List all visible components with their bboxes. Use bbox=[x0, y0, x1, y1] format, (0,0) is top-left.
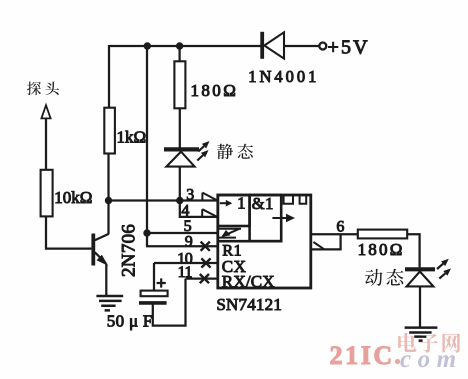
label +5V bbox=[328, 37, 370, 59]
junction LED1 / pin3 / pin4 bbox=[176, 197, 183, 204]
watermark 21IC bbox=[330, 341, 395, 370]
watermark com bbox=[400, 346, 463, 373]
svg-text:9: 9 bbox=[185, 233, 193, 250]
wire 1kΩ to collector node bbox=[107, 154, 109, 235]
wire pin 6 upper bbox=[311, 233, 358, 235]
pin number 11 bbox=[178, 264, 193, 281]
label 50μF bbox=[107, 312, 153, 331]
output polarity stroke bbox=[313, 242, 324, 250]
wire pin 4 jog bbox=[180, 201, 218, 217]
pin number 9 bbox=[185, 233, 193, 250]
wire pin 3 bbox=[109, 199, 218, 201]
wire pin 9 bbox=[146, 245, 218, 247]
svg-text:3: 3 bbox=[186, 187, 194, 204]
wire LED1 to pin3 wire bbox=[179, 167, 181, 201]
wire pin 11 bbox=[186, 277, 218, 279]
IC section divider bbox=[218, 240, 281, 243]
junction rail / 180Ω branch bbox=[176, 42, 183, 49]
pin number 4 bbox=[181, 203, 189, 220]
IC inner output box bbox=[250, 195, 282, 241]
IC gate label 1 bbox=[237, 193, 245, 212]
LED2 动态 triangle bbox=[407, 272, 434, 287]
svg-text:180Ω: 180Ω bbox=[358, 240, 405, 259]
X mark pin 10 bbox=[201, 258, 210, 267]
wedge mark pin 3 bbox=[202, 193, 217, 201]
wedge mark pin 4 bbox=[202, 209, 217, 217]
junction rail / pin5 branch bbox=[144, 42, 151, 49]
label SN74121 bbox=[216, 295, 282, 314]
IC inner trigger box bbox=[218, 195, 250, 226]
wire pin10 to capacitor + bbox=[153, 263, 155, 291]
label 180Ω dynamic bbox=[358, 240, 405, 259]
svg-text:SN74121: SN74121 bbox=[216, 295, 282, 314]
pin number 5 bbox=[184, 218, 192, 235]
LED1 light arrows bbox=[197, 141, 209, 161]
IC gate input arrow bbox=[220, 200, 233, 207]
svg-text:&1: &1 bbox=[252, 194, 274, 213]
wire pin 5 bbox=[147, 232, 218, 234]
wire probe to 10kΩ bbox=[45, 118, 47, 170]
wire rail to 1kΩ bbox=[108, 45, 110, 108]
label 探头 bbox=[27, 82, 59, 96]
IC label &amp;1 bbox=[252, 194, 274, 213]
svg-text:5: 5 bbox=[184, 218, 192, 235]
pin number 3 bbox=[186, 187, 194, 204]
svg-text:+5V: +5V bbox=[328, 37, 370, 59]
transistor collector lead bbox=[95, 234, 109, 240]
capacitor C1 positive plate bbox=[141, 291, 168, 297]
label 1N4001 bbox=[248, 67, 319, 86]
pin number 6 bbox=[336, 218, 344, 235]
label 10kΩ bbox=[54, 188, 92, 207]
label 动态 bbox=[365, 269, 403, 286]
resistor R2 1kΩ body bbox=[104, 108, 115, 154]
junction collector / pin3 wire bbox=[105, 197, 112, 204]
wire 180Ω to LED2 bbox=[407, 234, 419, 267]
X mark pin 11 bbox=[200, 274, 209, 283]
ground emitter bbox=[96, 296, 123, 310]
LED2 light arrows bbox=[437, 259, 451, 279]
resistor R3 180Ω body bbox=[358, 230, 407, 239]
label 180Ω static bbox=[191, 81, 239, 100]
resistor R4 10kΩ body bbox=[41, 170, 53, 217]
IC label CX bbox=[222, 257, 247, 276]
svg-text:2N706: 2N706 bbox=[119, 224, 140, 277]
resistor R1 180Ω body bbox=[174, 61, 185, 108]
wire emitter to ground bbox=[105, 264, 107, 296]
wire +5V rail bbox=[109, 45, 319, 47]
capacitor C1 negative plate bbox=[139, 301, 167, 305]
IC edge trigger symbol bbox=[219, 229, 241, 238]
ground dynamic LED bbox=[405, 328, 438, 341]
svg-text:RX/CX: RX/CX bbox=[222, 272, 275, 291]
label 2N706 bbox=[119, 224, 140, 277]
LED1 静态 triangle bbox=[166, 152, 194, 167]
svg-text:1kΩ: 1kΩ bbox=[117, 128, 147, 147]
wire capacitor - to pin 11 bbox=[153, 279, 186, 326]
svg-text:6: 6 bbox=[336, 218, 344, 235]
transistor emitter lead bbox=[95, 252, 108, 265]
label 1kΩ bbox=[117, 128, 147, 147]
diode D1 1N4001 triangle bbox=[264, 32, 284, 58]
label 静态 bbox=[217, 144, 253, 159]
watermark 电子网 bbox=[398, 333, 460, 353]
svg-text:1N4001: 1N4001 bbox=[248, 67, 319, 86]
LED2 动态 cathode bar bbox=[405, 267, 435, 271]
capacitor polarity + bbox=[157, 278, 166, 287]
X mark pin 9 bbox=[201, 242, 210, 251]
svg-text:10kΩ: 10kΩ bbox=[54, 188, 92, 207]
IC label R1 bbox=[222, 242, 242, 259]
svg-text:1: 1 bbox=[237, 193, 245, 212]
IC output transition arrow bbox=[272, 214, 295, 223]
wire rail to pin5/pin9 branch bbox=[146, 46, 148, 246]
wire LED2 to ground bbox=[419, 286, 421, 326]
wire pin 6 lower bbox=[311, 234, 341, 249]
svg-text:180Ω: 180Ω bbox=[191, 81, 239, 100]
IC label RX/CX bbox=[222, 272, 275, 291]
watermark dot bbox=[395, 359, 400, 364]
wire 180Ω to LED1 bbox=[179, 108, 181, 147]
wire rail to 180Ω bbox=[178, 46, 180, 62]
probe arrow bbox=[41, 105, 50, 118]
IC U1 SN74121 outline bbox=[218, 195, 311, 288]
wire pin 10 bbox=[154, 262, 218, 264]
wire base lead bbox=[46, 216, 91, 248]
IC monostable pulse symbol bbox=[284, 196, 307, 204]
junction pin5 branch bbox=[143, 229, 150, 236]
svg-text:50 μ F: 50 μ F bbox=[107, 312, 153, 331]
diode D1 1N4001 cathode bar bbox=[260, 32, 264, 59]
pin number 10 bbox=[177, 250, 193, 267]
LED1 静态 cathode bar bbox=[164, 147, 199, 151]
transistor Q1 2N706 base bar bbox=[91, 234, 95, 266]
svg-text:21IC: 21IC bbox=[330, 341, 395, 370]
terminal +5V bbox=[319, 43, 326, 50]
